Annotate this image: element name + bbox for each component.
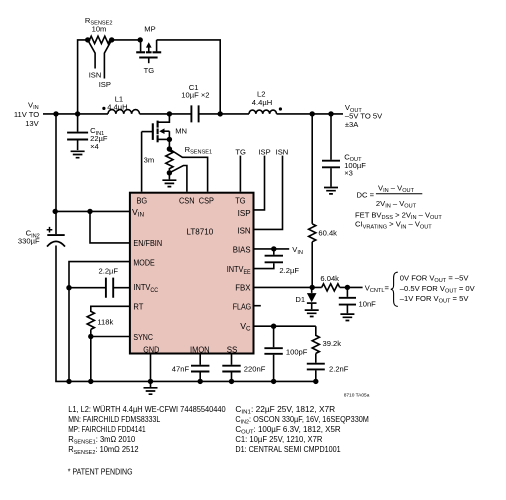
resistor 39.2k	[312, 326, 319, 353]
svg-text:VIN – VOUT: VIN – VOUT	[378, 184, 415, 195]
svg-text:* PATENT PENDING: * PATENT PENDING	[68, 467, 133, 476]
svg-text:GND: GND	[143, 344, 159, 354]
svg-text:FBX: FBX	[235, 283, 251, 293]
svg-text:SS: SS	[227, 344, 238, 354]
svg-text:±3A: ±3A	[345, 120, 359, 129]
wire: main VIN rail	[43, 113, 108, 115]
svg-text:47nF: 47nF	[172, 364, 190, 373]
wire: L2 to VOUT	[277, 113, 344, 115]
svg-text:39.2k: 39.2k	[323, 339, 342, 348]
label C1	[181, 83, 209, 100]
wire: MP drain to top-right corner down to main rail	[157, 40, 221, 114]
wire: kelvin CSP from RSENSE1 top	[169, 149, 207, 192]
ground (main rail)	[144, 381, 158, 394]
svg-text:FLAG: FLAG	[233, 302, 252, 312]
ground (CIN1)	[71, 151, 85, 157]
label L1	[107, 94, 127, 111]
svg-text:CIVRATING > VIN – VOUT: CIVRATING > VIN – VOUT	[355, 220, 432, 231]
svg-text:60.4k: 60.4k	[318, 228, 337, 237]
svg-text:ISP: ISP	[258, 147, 270, 156]
svg-text:RT: RT	[133, 302, 144, 312]
label COUT	[344, 152, 366, 177]
svg-text:L1, L2: WÜRTH 4.4µH WE-CFWI 74: L1, L2: WÜRTH 4.4µH WE-CFWI 74485540440	[68, 405, 226, 414]
fraction bar	[376, 193, 422, 195]
label MN / RSENSE1 / 3m	[144, 126, 213, 164]
capacitor COUT 100uF x3	[322, 114, 340, 187]
svg-text:BG: BG	[137, 196, 148, 206]
brace	[391, 272, 398, 306]
capacitor 47nF on IMON	[191, 355, 209, 382]
svg-text:2.2nF: 2.2nF	[329, 364, 349, 373]
svg-text:CIN2: OSCON 330µF, 16V, 16SEQP: CIN2: OSCON 330µF, 16V, 16SEQP330M	[235, 415, 369, 426]
label RSENSE2	[85, 16, 113, 89]
svg-text:C1: 10µF 25V, 1210, X7R: C1: 10µF 25V, 1210, X7R	[235, 435, 322, 444]
resistor 6.04k	[322, 284, 340, 291]
svg-text:COUT: 100µF 6.3V, 1812, X5R: COUT: 100µF 6.3V, 1812, X5R	[235, 425, 341, 436]
wire: 60.4k to FBX node	[311, 242, 313, 288]
svg-text:0V FOR VOUT = –5V: 0V FOR VOUT = –5V	[400, 274, 470, 285]
svg-text:4.4µH: 4.4µH	[252, 98, 272, 107]
label VCNTL list	[365, 274, 476, 305]
svg-text:–1V FOR VOUT = 5V: –1V FOR VOUT = 5V	[400, 294, 470, 305]
capacitor 220nF on SS	[222, 355, 240, 382]
svg-text:MP: MP	[144, 25, 155, 34]
ground (COUT)	[324, 188, 338, 194]
svg-text:TG: TG	[235, 148, 246, 157]
svg-text:D1: D1	[295, 295, 305, 304]
svg-text:CIN1: 22µF 25V, 1812, X7R: CIN1: 22µF 25V, 1812, X7R	[235, 405, 335, 416]
transistor MP (PMOS)	[136, 40, 161, 63]
svg-text:ISN: ISN	[237, 226, 250, 236]
svg-text:ISN: ISN	[276, 147, 289, 156]
svg-text:MN: MN	[175, 126, 187, 135]
svg-text:13V: 13V	[25, 119, 39, 128]
wire: top rail left vertical from VIN rail up	[78, 40, 88, 114]
label CIN1	[90, 126, 108, 151]
svg-text:10m: 10m	[92, 24, 107, 33]
svg-text:MN: FAIRCHILD FDMS8333L: MN: FAIRCHILD FDMS8333L	[68, 415, 161, 424]
ground (D1)	[305, 310, 319, 316]
capacitor 10nF	[339, 287, 356, 313]
svg-text:VCNTL=: VCNTL=	[365, 283, 390, 294]
wire: GND pin down	[150, 355, 152, 382]
wire: bottom ground rail	[55, 380, 316, 382]
resistor RSENSE1 3m	[166, 149, 173, 170]
wire: MN gate to BG pin	[141, 132, 143, 192]
svg-text:3m: 3m	[144, 156, 155, 165]
wire: C1 right plate to L2	[199, 113, 249, 115]
wire: SYNC pin	[91, 336, 130, 338]
wire: L1 to C1 left plate	[140, 113, 191, 115]
svg-text:ISP: ISP	[99, 80, 111, 89]
wire: ISP kelvin stub from RSENSE2 right terminal	[104, 40, 111, 79]
wire: ISN pin vertical	[254, 156, 283, 230]
svg-text:RSENSE2: 10mΩ 2512: RSENSE2: 10mΩ 2512	[68, 445, 138, 456]
svg-text:10µF ×2: 10µF ×2	[181, 90, 209, 99]
labels TG ISP ISN (mid)	[235, 147, 288, 156]
capacitor C1 10uF x2	[191, 105, 198, 122]
wire: FBX pin to 6.04k	[254, 286, 322, 288]
label MP / TG	[144, 25, 156, 75]
wire: EN/FBIN to VIN rail	[90, 211, 129, 243]
capacitor CIN2 330uF (polarized)	[47, 114, 65, 382]
svg-text:SYNC: SYNC	[133, 332, 153, 342]
svg-text:EN/FBIN: EN/FBIN	[133, 238, 162, 248]
svg-text:4.4µH: 4.4µH	[107, 103, 127, 112]
resistor 60.4k	[309, 224, 316, 242]
transistor MN (NMOS)	[142, 114, 170, 149]
svg-text:ISP: ISP	[238, 208, 251, 218]
wire: ISP pin vertical	[254, 156, 265, 210]
svg-text:2.2µF: 2.2µF	[279, 266, 299, 275]
label L2	[252, 90, 272, 108]
svg-text:ISN: ISN	[89, 70, 102, 79]
svg-text:D1: CENTRAL SEMI CMPD1001: D1: CENTRAL SEMI CMPD1001	[235, 445, 340, 454]
svg-text:RSENSE1: 3mΩ 2010: RSENSE1: 3mΩ 2010	[68, 435, 136, 446]
svg-text:MP: FAIRCHILD FDD4141: MP: FAIRCHILD FDD4141	[68, 425, 146, 434]
notes column 1	[68, 405, 226, 477]
wire: VIN pin to left rail	[55, 210, 129, 212]
svg-text:CSN: CSN	[179, 196, 195, 206]
svg-text:220nF: 220nF	[244, 364, 266, 373]
wire: BIAS pin to VIN label	[254, 248, 289, 250]
svg-text:TG: TG	[235, 196, 246, 206]
svg-text:LT8710: LT8710	[187, 227, 214, 237]
svg-text:IMON: IMON	[190, 344, 210, 354]
svg-text:×4: ×4	[90, 142, 99, 151]
wire: RSENSE2 to MP source	[112, 39, 141, 41]
svg-text:8710 TA05a: 8710 TA05a	[344, 393, 370, 399]
wire: ISN kelvin stub from RSENSE2 left terminal	[88, 40, 95, 69]
svg-text:TG: TG	[144, 66, 155, 75]
svg-text:2VIN – VOUT: 2VIN – VOUT	[376, 199, 417, 210]
capacitor CIN1 22uF x4	[67, 114, 88, 150]
wire: VC pin rail	[254, 325, 316, 327]
wire: VOUT rail down to 60.4k	[311, 114, 313, 224]
capacitor 2.2uF (INTVCC)	[69, 278, 129, 298]
svg-text:6.04k: 6.04k	[320, 274, 339, 283]
wire: 6.04k to VCNTL stub	[340, 286, 363, 288]
capacitor 100pF	[264, 326, 282, 381]
wire: FLAG stub	[254, 305, 261, 307]
wire: 118k to SYNC node to rail	[90, 329, 92, 381]
svg-text:10nF: 10nF	[359, 300, 377, 309]
capacitor 2.2uF (BIAS-INTVEE)	[254, 249, 283, 269]
inductor L2 4.4uH	[249, 110, 277, 114]
svg-text:CSP: CSP	[199, 196, 214, 206]
svg-text:DC =: DC =	[357, 191, 375, 200]
inductor L1 4.4uH	[108, 110, 140, 114]
svg-text:118k: 118k	[97, 318, 113, 327]
svg-text:330µF: 330µF	[18, 237, 40, 246]
svg-text:100pF: 100pF	[286, 348, 308, 357]
resistor RSENSE2 10m	[88, 36, 112, 43]
svg-text:RSENSE1: RSENSE1	[185, 145, 213, 156]
notes column 2	[235, 405, 369, 454]
svg-text:BIAS: BIAS	[233, 245, 251, 255]
resistor 118k on RT	[87, 306, 129, 329]
wire: MODE to ground rail	[69, 262, 129, 382]
IC pin labels	[132, 196, 246, 355]
ground (10nF)	[340, 314, 354, 320]
svg-text:11V TO: 11V TO	[14, 110, 39, 119]
wire: TG pin vertical	[239, 156, 241, 192]
wire: kelvin CSN from RSENSE1 bottom	[169, 166, 187, 192]
svg-text:2.2µF: 2.2µF	[99, 266, 119, 275]
capacitor 2.2nF	[307, 353, 325, 381]
equation DC	[355, 184, 442, 231]
svg-text:–0.5V FOR VOUT = 0V: –0.5V FOR VOUT = 0V	[400, 284, 476, 295]
IC LT8710	[130, 193, 254, 354]
wire: RSENSE1 bottom to ground	[168, 173, 170, 180]
svg-text:VIN: VIN	[292, 245, 303, 256]
ground (RSENSE1)	[162, 180, 176, 186]
label CIN2	[18, 229, 40, 246]
label VIN input	[14, 100, 40, 128]
svg-text:MODE: MODE	[133, 257, 154, 267]
diode D1	[307, 287, 317, 309]
svg-text:×3: ×3	[344, 169, 353, 178]
label VOUT	[345, 103, 383, 129]
